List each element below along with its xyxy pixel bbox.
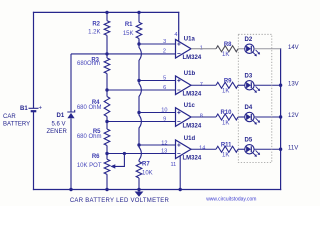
svg-text:D1: D1 bbox=[57, 113, 65, 119]
resistor R9 bbox=[216, 78, 238, 94]
junction D3 right rail bbox=[279, 84, 282, 87]
wire output U1c bbox=[191, 116, 216, 118]
op-amp U1d bbox=[161, 136, 205, 168]
svg-text:1K: 1K bbox=[222, 120, 229, 126]
svg-text:9: 9 bbox=[163, 117, 166, 123]
svg-text:D5: D5 bbox=[245, 137, 253, 143]
wire tap 1 (pin 2 net) bbox=[71, 53, 176, 55]
LED enclosure dashed box bbox=[238, 34, 271, 162]
svg-text:680 Ohm: 680 Ohm bbox=[77, 134, 102, 140]
wire output U1a (gray net) bbox=[191, 48, 216, 50]
svg-text:1K: 1K bbox=[222, 52, 229, 58]
svg-text:5: 5 bbox=[163, 76, 166, 82]
junction D5 right rail bbox=[279, 148, 282, 151]
svg-text:LM324: LM324 bbox=[183, 156, 202, 162]
wire tap 3 (pin 9 net) bbox=[107, 121, 176, 123]
svg-text:11V: 11V bbox=[288, 146, 298, 152]
wire output U1b bbox=[191, 84, 216, 86]
resistor R10 bbox=[216, 110, 238, 126]
junction R7 ground bbox=[137, 188, 140, 191]
svg-text:12: 12 bbox=[161, 141, 167, 147]
svg-text:LM324: LM324 bbox=[183, 92, 202, 98]
svg-text:D2: D2 bbox=[245, 37, 253, 43]
junction R1 top rail bbox=[137, 11, 140, 14]
svg-text:3: 3 bbox=[163, 39, 166, 45]
svg-text:LM324: LM324 bbox=[183, 123, 202, 129]
wire pin 11 to ground rail bbox=[179, 156, 181, 190]
junction R6 ground bbox=[105, 188, 108, 191]
svg-text:D3: D3 bbox=[245, 73, 253, 79]
svg-text:B1: B1 bbox=[20, 106, 28, 112]
resistor R2 bbox=[88, 12, 110, 54]
wire R10 to D4 bbox=[238, 116, 245, 118]
svg-text:ZENER: ZENER bbox=[47, 129, 68, 135]
svg-text:13: 13 bbox=[161, 148, 167, 154]
svg-text:6: 6 bbox=[163, 85, 166, 91]
svg-text:15K: 15K bbox=[123, 31, 134, 37]
LED D3 bbox=[245, 73, 261, 93]
svg-text:10: 10 bbox=[161, 108, 167, 114]
junction R6 wiper bbox=[123, 152, 126, 155]
wire D2 to right rail (gray net) bbox=[254, 48, 280, 50]
wire tap 4 (pin 13 net) bbox=[107, 153, 176, 155]
svg-text:2: 2 bbox=[163, 48, 166, 54]
svg-text:11: 11 bbox=[170, 162, 176, 168]
resistor R7 bbox=[136, 160, 152, 190]
wire plus input U1d bbox=[139, 144, 176, 146]
wire left rail upper (battery + to top rail) bbox=[33, 12, 35, 108]
battery B1 bbox=[3, 105, 43, 127]
wire R11 to D5 bbox=[238, 148, 245, 150]
wire R8 to D2 (gray net) bbox=[238, 48, 245, 50]
wire plus input U1a bbox=[139, 43, 176, 45]
wire R9 to D3 bbox=[238, 84, 245, 86]
svg-text:680 OhM: 680 OhM bbox=[77, 105, 102, 111]
svg-text:U1c: U1c bbox=[184, 103, 196, 109]
wire bottom ground rail bbox=[34, 189, 281, 191]
node sense bus pin 5 bbox=[137, 79, 140, 82]
wire plus input U1c bbox=[139, 112, 176, 114]
wire D3 to right rail bbox=[254, 84, 280, 86]
svg-text:+: + bbox=[39, 105, 43, 111]
svg-text:R11: R11 bbox=[221, 142, 232, 148]
op-amp U1c bbox=[161, 103, 203, 130]
wire right rail (LED cathode return) bbox=[280, 49, 282, 190]
junction R2 top rail bbox=[105, 11, 108, 14]
wire top rail (V+ supply) bbox=[34, 11, 179, 13]
svg-text:CAR BATTERY LED VOLTMETER: CAR BATTERY LED VOLTMETER bbox=[70, 198, 170, 204]
svg-text:4: 4 bbox=[174, 32, 177, 38]
svg-text:13V: 13V bbox=[288, 81, 299, 87]
svg-text:R8: R8 bbox=[224, 42, 232, 48]
svg-text:LM324: LM324 bbox=[183, 55, 202, 61]
potentiometer R6 bbox=[77, 154, 125, 190]
node sense bus pin 3 bbox=[137, 42, 140, 45]
resistor R5 bbox=[77, 122, 110, 154]
svg-text:U1d: U1d bbox=[184, 136, 196, 142]
svg-text:14V: 14V bbox=[288, 45, 299, 51]
svg-text:10K POT: 10K POT bbox=[77, 163, 102, 169]
op-amp U1b bbox=[163, 71, 203, 98]
svg-text:R7: R7 bbox=[142, 161, 150, 167]
LED D4 bbox=[245, 105, 261, 125]
node sense bus pin 12 bbox=[137, 143, 140, 146]
svg-text:1K: 1K bbox=[222, 153, 229, 159]
junction D1 ground bbox=[69, 188, 72, 191]
wire left rail lower (battery - to ground rail) bbox=[33, 112, 35, 189]
node tap R3/R4 bbox=[105, 88, 108, 91]
wire D5 to right rail bbox=[254, 148, 280, 150]
wire plus input U1b bbox=[139, 80, 176, 82]
svg-text:R10: R10 bbox=[220, 110, 232, 116]
wire D4 to right rail bbox=[254, 116, 280, 118]
resistor R8 bbox=[216, 42, 238, 58]
svg-text:1K: 1K bbox=[222, 89, 229, 95]
svg-text:1.2K: 1.2K bbox=[88, 29, 100, 35]
svg-text:U1a: U1a bbox=[184, 37, 196, 43]
svg-text:www.circuitstoday.com: www.circuitstoday.com bbox=[206, 197, 256, 203]
svg-text:5.6 V: 5.6 V bbox=[52, 122, 66, 128]
svg-text:R6: R6 bbox=[92, 154, 100, 160]
resistor R1 bbox=[123, 12, 142, 44]
svg-text:D4: D4 bbox=[245, 105, 253, 111]
junction D4 right rail bbox=[279, 115, 282, 118]
node bus non-inverting rail with hops bbox=[139, 39, 141, 160]
svg-text:12V: 12V bbox=[288, 113, 299, 119]
svg-text:BATTERY: BATTERY bbox=[3, 122, 30, 128]
node tap R4/R5 bbox=[105, 120, 108, 123]
resistor R11 bbox=[216, 142, 238, 158]
svg-text:U1b: U1b bbox=[184, 71, 196, 77]
svg-text:R2: R2 bbox=[92, 21, 100, 27]
svg-text:680Ohm: 680Ohm bbox=[77, 61, 100, 67]
zener diode D1 bbox=[47, 54, 75, 190]
wire U1 pin 4 supply stub bbox=[178, 12, 180, 41]
node tap R5/R6 bbox=[105, 152, 108, 155]
svg-text:R1: R1 bbox=[125, 22, 133, 28]
svg-text:CAR: CAR bbox=[3, 114, 16, 120]
resistor R3 bbox=[77, 54, 110, 90]
svg-text:R9: R9 bbox=[224, 78, 232, 84]
op-amp U1a bbox=[163, 32, 203, 61]
resistor R4 bbox=[77, 90, 110, 122]
wire output U1d bbox=[191, 148, 216, 150]
LED D5 bbox=[245, 137, 261, 157]
node sense bus pin 10 bbox=[137, 111, 140, 114]
node reference 5.6V (R2/R3/D1) bbox=[105, 52, 108, 55]
LED D2 bbox=[245, 37, 261, 57]
svg-text:10K: 10K bbox=[142, 171, 153, 177]
junction pin 11 ground bbox=[179, 188, 182, 191]
wire tap 2 (pin 6 net) bbox=[107, 89, 176, 91]
ground bbox=[135, 190, 144, 197]
